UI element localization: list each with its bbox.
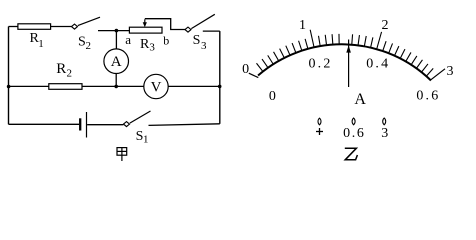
svg-text:V: V [151,80,162,96]
pointer arrow A [346,40,351,88]
wire top left [9,26,18,28]
label S2 [78,35,91,53]
svg-text:3: 3 [447,64,454,79]
terminal plus [318,118,321,125]
svg-text:1: 1 [299,18,306,33]
wire R1 to S2 [51,26,72,28]
wire bottom left [9,123,80,125]
label R2 [56,61,72,79]
svg-text:0: 0 [269,89,276,104]
svg-text:3: 3 [381,126,388,141]
dial scale end mark right [431,69,445,80]
rheostat R3 body [129,27,162,33]
resistor R2 [49,84,82,90]
label S3 [193,33,207,52]
svg-text:S: S [193,33,201,48]
wire right rail [219,31,221,124]
wire voltmeter to right rail [168,85,220,87]
voltmeter V1 circle [144,74,168,98]
terminal 3 [383,118,386,125]
wire ammeter to middle [115,74,117,87]
svg-text:2: 2 [86,40,92,52]
svg-text:0: 0 [242,62,249,77]
battery negative plate [79,118,81,130]
switch S1 contact [124,122,130,127]
resistor R1 [18,24,51,30]
wire S1 to right rail [149,124,220,126]
wire left rail [8,27,10,125]
node dot left rail [7,85,11,89]
svg-text:2: 2 [67,67,73,79]
wire battery to S1 [87,124,123,126]
svg-text:A: A [354,91,366,108]
wire S2 to node [98,30,129,32]
svg-text:1: 1 [143,134,149,146]
wire slider to S3 [145,19,185,30]
meter dial group [256,28,434,80]
wire node to ammeter [115,31,117,49]
switch S2 contact [72,24,78,29]
terminal 0.6 [352,118,355,125]
svg-text:2: 2 [382,18,389,33]
svg-text:R: R [56,61,66,77]
svg-text:b: b [163,33,169,47]
dial scale ticks [256,28,434,76]
ammeter A1 circle [104,49,129,74]
node dot right rail [218,85,222,89]
wire R2 to voltmeter [82,85,144,87]
switch S3 lever [191,14,215,28]
svg-text:0.2: 0.2 [308,57,332,72]
label yi (figure 2) [345,148,358,160]
node junction top [115,29,119,33]
switch S2 lever [78,17,100,25]
wire middle left [9,85,49,87]
svg-text:a: a [125,32,131,47]
label R3 [140,37,155,54]
svg-text:0.4: 0.4 [366,57,390,72]
switch S3 contact [185,27,191,32]
dial scale end mark left [249,73,258,77]
label R1 [30,31,44,50]
svg-text:0.6: 0.6 [343,126,365,141]
dial arc [258,42,432,81]
switch S1 lever [130,111,151,123]
node dot ammeter middle [114,85,118,89]
svg-text:A: A [111,54,122,70]
battery positive plate [86,112,88,138]
svg-text:1: 1 [38,38,44,50]
label jia (figure 1) [117,148,127,161]
svg-text:3: 3 [149,42,155,54]
rheostat R3 slider arrow [143,19,147,27]
wire S3 to right rail [203,30,220,32]
label plus sign [316,128,323,135]
svg-text:0.6: 0.6 [416,89,440,104]
svg-text:3: 3 [201,40,207,52]
label S1 [136,129,149,146]
